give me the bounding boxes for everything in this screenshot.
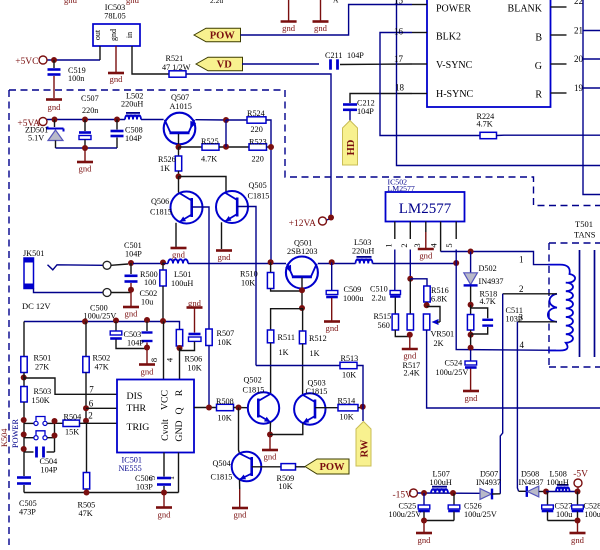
wire Q507 emitter right bbox=[195, 119, 226, 121]
svg-text:VCC: VCC bbox=[160, 390, 171, 410]
wire VD to C211 bbox=[242, 63, 319, 65]
resistor R502 bbox=[83, 322, 110, 373]
wire Q506 emitter bbox=[175, 223, 177, 247]
wire T501 pin2 drop bbox=[500, 294, 502, 494]
ground C509 bbox=[324, 322, 340, 334]
svg-text:gnd: gnd bbox=[314, 23, 328, 33]
svg-text:1K: 1K bbox=[279, 348, 289, 357]
pin 1 T501 label bbox=[519, 255, 524, 265]
wire Q505 base to R513 line bbox=[237, 207, 256, 366]
svg-text:R526: R526 bbox=[158, 155, 176, 164]
svg-text:R507: R507 bbox=[217, 329, 235, 338]
svg-text:R504: R504 bbox=[64, 413, 82, 422]
resistor R510 bbox=[240, 262, 274, 288]
resistor R505 bbox=[78, 423, 96, 518]
svg-text:gnd: gnd bbox=[571, 535, 585, 545]
capacitor C527 bbox=[542, 492, 573, 521]
svg-text:150K: 150K bbox=[32, 396, 50, 405]
svg-text:19: 19 bbox=[574, 83, 584, 93]
svg-text:20: 20 bbox=[574, 54, 584, 64]
wire R518 bottom bbox=[470, 330, 472, 335]
svg-text:27K: 27K bbox=[35, 363, 49, 372]
ground stem top2 bbox=[320, 0, 322, 21]
svg-text:T501: T501 bbox=[575, 219, 593, 229]
inductor L507 bbox=[430, 470, 452, 494]
svg-text:-5V: -5V bbox=[573, 470, 588, 480]
wire Q503 base to R514 bbox=[315, 407, 338, 409]
svg-text:1K: 1K bbox=[310, 349, 320, 358]
diode D502 IN4937 bbox=[464, 252, 504, 287]
svg-text:R515: R515 bbox=[374, 312, 392, 321]
wire pin4 to T501 pin1 bbox=[441, 252, 548, 265]
svg-text:Q507: Q507 bbox=[171, 93, 189, 102]
pin 2 T501 bbox=[503, 284, 557, 294]
node C508 junction bbox=[114, 117, 120, 123]
terminal +5VA bbox=[17, 118, 47, 130]
wire tie vertical bbox=[225, 120, 227, 147]
svg-text:220: 220 bbox=[251, 125, 263, 134]
pin 1 LM2577 bbox=[384, 222, 395, 248]
partial label top a bbox=[210, 0, 223, 5]
svg-text:POWER: POWER bbox=[11, 418, 20, 448]
svg-text:R503: R503 bbox=[34, 387, 52, 396]
inductor L508 bbox=[547, 470, 570, 492]
wire 78L05 in pin bbox=[132, 46, 169, 74]
wire 12V vertical bbox=[327, 218, 331, 220]
diode D507 IN4937 bbox=[476, 470, 501, 500]
wire R514 right bbox=[358, 407, 363, 409]
pin 15 stub bbox=[394, 0, 427, 6]
capacitor C504 bbox=[24, 447, 58, 475]
resistor R501 bbox=[21, 354, 51, 373]
svg-text:Q502: Q502 bbox=[244, 376, 262, 385]
wire R513 to RW bbox=[357, 366, 363, 422]
node pin2 feedback junction bbox=[407, 276, 413, 282]
potentiometer VR501 bbox=[423, 307, 454, 349]
wire -5V bottom link bbox=[548, 520, 578, 522]
svg-text:7: 7 bbox=[89, 385, 94, 395]
svg-text:DIS: DIS bbox=[127, 391, 143, 402]
node jack circle top bbox=[103, 261, 111, 269]
pin 16 stub bbox=[394, 27, 427, 37]
wire pin3 gnd bbox=[425, 232, 427, 248]
wire Q504 collector drop bbox=[239, 408, 240, 454]
resistor R521 bbox=[162, 54, 191, 77]
wire pin5 down bbox=[455, 250, 457, 264]
svg-text:104P: 104P bbox=[357, 107, 374, 116]
resistor R517 bbox=[407, 279, 413, 330]
wire C510 to R515 bbox=[394, 298, 396, 315]
svg-text:gnd: gnd bbox=[64, 0, 78, 5]
pin 3 T501 bbox=[517, 313, 556, 323]
transistor Q505 C1815 bbox=[216, 181, 269, 223]
svg-text:78L05: 78L05 bbox=[104, 12, 125, 21]
wire TRIG pin2 bbox=[86, 411, 117, 424]
svg-text:2: 2 bbox=[399, 243, 409, 247]
svg-text:gnd: gnd bbox=[110, 74, 124, 84]
svg-text:TRIG: TRIG bbox=[127, 422, 150, 433]
svg-text:4.7K: 4.7K bbox=[480, 297, 496, 306]
wire R508 to Q502 bbox=[234, 407, 248, 409]
wire R525 to R523 bbox=[219, 146, 249, 148]
pin 5 LM2577 bbox=[444, 222, 456, 248]
svg-text:gnd: gnd bbox=[234, 510, 248, 520]
svg-text:in: in bbox=[125, 32, 134, 38]
svg-text:100u: 100u bbox=[585, 510, 600, 519]
resistor R513 bbox=[340, 354, 358, 380]
transistor Q504 C1815 bbox=[211, 452, 262, 482]
resistor R512 bbox=[299, 308, 326, 358]
capacitor C508 bbox=[111, 120, 143, 149]
capacitor C503 bbox=[124, 322, 153, 348]
transistor Q502 C1815 bbox=[243, 376, 280, 424]
ground Q505 bbox=[216, 251, 232, 263]
svg-text:2.4K: 2.4K bbox=[404, 369, 420, 378]
node +12VA junction bbox=[328, 215, 334, 221]
svg-text:104P: 104P bbox=[41, 466, 58, 475]
wire switch right column bbox=[54, 423, 56, 452]
svg-text:IN4937: IN4937 bbox=[519, 478, 544, 487]
svg-text:2.2u: 2.2u bbox=[372, 294, 386, 303]
node base junction1 bbox=[299, 287, 305, 293]
svg-text:R514: R514 bbox=[338, 397, 356, 406]
wire -5V gnd stem bbox=[577, 521, 579, 533]
wire main 12V a bbox=[133, 263, 163, 265]
wire video vertical bbox=[397, 0, 600, 166]
svg-text:22: 22 bbox=[574, 0, 583, 6]
transistor Q501 2SB1203 bbox=[285, 239, 318, 289]
node R506 bottom bbox=[177, 345, 183, 351]
node C507 junction bbox=[82, 117, 88, 123]
resistor R503 bbox=[21, 378, 51, 406]
svg-text:10K: 10K bbox=[279, 482, 293, 491]
wire BLK2 down bbox=[380, 33, 480, 136]
svg-text:+5VC: +5VC bbox=[15, 57, 38, 67]
svg-text:R502: R502 bbox=[93, 354, 111, 363]
node gnd link bbox=[82, 145, 88, 151]
wire R513 line bbox=[256, 365, 340, 367]
node RW flag bbox=[356, 422, 371, 467]
svg-text:DC 12V: DC 12V bbox=[22, 301, 51, 311]
node R524 junction bbox=[223, 117, 229, 123]
wire R524 right down bbox=[266, 120, 271, 262]
ground C500 C503 bbox=[139, 365, 155, 377]
inductor L502 bbox=[121, 92, 143, 120]
node R502 rail junction bbox=[82, 319, 88, 325]
svg-text:8: 8 bbox=[149, 358, 159, 362]
svg-text:Q506: Q506 bbox=[151, 197, 169, 206]
node C504 left junction bbox=[21, 446, 27, 452]
svg-text:3: 3 bbox=[412, 243, 422, 247]
ground top mid1 bbox=[281, 22, 297, 34]
wire R502 bottom bbox=[85, 373, 87, 424]
wire pin8 drop bbox=[149, 322, 164, 380]
ground jack bbox=[123, 307, 139, 319]
pin 2 LM2577 bbox=[399, 222, 410, 248]
pin 19 stub bbox=[551, 83, 584, 93]
diode ZD501 zener bbox=[25, 120, 64, 149]
svg-text:R523: R523 bbox=[249, 138, 267, 147]
svg-text:5: 5 bbox=[444, 243, 454, 247]
wire C503 gnd stem bbox=[146, 343, 148, 364]
svg-text:100u/25V: 100u/25V bbox=[389, 510, 422, 519]
svg-text:gnd: gnd bbox=[125, 309, 139, 319]
node R510 junction bbox=[268, 259, 274, 265]
resistor R523 bbox=[249, 138, 267, 164]
svg-text:GND: GND bbox=[174, 420, 185, 441]
svg-text:C509: C509 bbox=[344, 285, 362, 294]
svg-text:R508: R508 bbox=[216, 397, 234, 406]
wire Q504 emitter bbox=[239, 480, 241, 489]
svg-text:R525: R525 bbox=[201, 137, 219, 146]
svg-text:gnd: gnd bbox=[79, 164, 93, 174]
svg-text:18: 18 bbox=[395, 83, 405, 93]
node VR501 top bbox=[424, 302, 430, 308]
node RW junction bbox=[360, 404, 366, 410]
wire jack sleeve bbox=[34, 289, 104, 293]
node switch right2 bbox=[52, 433, 58, 439]
wire 78L05 out pin bbox=[99, 46, 101, 60]
label R517 bbox=[403, 361, 421, 378]
svg-text:100uH: 100uH bbox=[171, 279, 193, 288]
svg-text:gnd: gnd bbox=[326, 323, 340, 333]
wire Q504 base to R509 bbox=[252, 466, 281, 468]
svg-text:560: 560 bbox=[378, 321, 390, 330]
wire T501 pin3 drop bbox=[517, 322, 518, 492]
svg-text:gnd: gnd bbox=[109, 29, 118, 41]
wire R507 to Q output bbox=[208, 346, 210, 408]
wire main 12V b bbox=[163, 263, 168, 265]
svg-text:100u: 100u bbox=[556, 510, 572, 519]
ground partial top2 bbox=[126, 0, 140, 5]
terminal -5V bbox=[573, 470, 588, 488]
wire branch G bbox=[583, 58, 600, 60]
node base junction2 bbox=[299, 305, 305, 311]
capacitor C510 bbox=[370, 285, 401, 303]
wire right bus bbox=[583, 0, 600, 195]
svg-text:LM2577: LM2577 bbox=[388, 184, 415, 193]
wire R515 bottom bbox=[395, 330, 409, 337]
wire base bus bbox=[179, 177, 227, 193]
svg-text:6: 6 bbox=[89, 399, 94, 409]
svg-text:3: 3 bbox=[519, 313, 524, 323]
svg-text:15: 15 bbox=[394, 0, 404, 6]
wire Q504 gnd stem bbox=[239, 489, 241, 507]
op-amp U_IC302 video IC box bbox=[427, 0, 551, 107]
wire branch R bbox=[583, 87, 600, 89]
op-amp U_IC502 LM2577 box bbox=[386, 178, 465, 222]
wire Q501 base stem bbox=[301, 278, 303, 309]
svg-text:103P: 103P bbox=[136, 483, 153, 492]
wire jack tip contact bbox=[48, 265, 104, 270]
svg-text:100u/25V: 100u/25V bbox=[436, 368, 469, 377]
capacitor C500 bbox=[84, 304, 148, 349]
node Q507 base junction bbox=[176, 144, 182, 150]
svg-text:C1815: C1815 bbox=[150, 208, 172, 217]
svg-text:47K: 47K bbox=[95, 363, 109, 372]
wire THR pin6 bbox=[86, 399, 117, 409]
wire bottom rail bbox=[24, 492, 179, 494]
resistor R515 bbox=[374, 312, 399, 330]
transistor Q503 C1815 bbox=[294, 379, 327, 425]
ground top mid2 bbox=[313, 22, 329, 34]
ground Q504 bbox=[232, 508, 248, 520]
wire Q507 base bbox=[178, 134, 180, 147]
svg-text:R: R bbox=[535, 90, 542, 101]
transformer core lines bbox=[580, 250, 595, 357]
connector JK501 jack bbox=[22, 249, 51, 311]
wire R526 bottom bbox=[178, 171, 180, 177]
ground C524 bbox=[463, 391, 479, 403]
node R517 bottom bbox=[407, 332, 413, 338]
capacitor C511 bbox=[471, 306, 523, 334]
node gnd -15V bbox=[421, 518, 427, 524]
pin 5 NE555 bbox=[147, 453, 164, 481]
capacitor C528 bbox=[572, 492, 600, 521]
node pin8 rail junction bbox=[160, 318, 166, 324]
svg-text:POW: POW bbox=[210, 31, 236, 42]
svg-text:VR501: VR501 bbox=[431, 330, 455, 339]
svg-text:IN4937: IN4937 bbox=[476, 478, 501, 487]
resistor R516 bbox=[424, 286, 449, 304]
svg-text:220uH: 220uH bbox=[121, 100, 143, 109]
svg-text:R512: R512 bbox=[309, 334, 327, 343]
svg-text:1000u: 1000u bbox=[343, 294, 363, 303]
node R518 bottom bbox=[468, 332, 474, 338]
node HD flag bbox=[343, 121, 358, 166]
svg-text:TANS: TANS bbox=[574, 230, 596, 240]
svg-text:104P: 104P bbox=[347, 51, 364, 60]
node C500 rail junction bbox=[113, 318, 119, 324]
svg-text:2: 2 bbox=[88, 411, 93, 421]
svg-text:G: G bbox=[535, 61, 542, 72]
wire C509 gnd stem bbox=[331, 298, 333, 321]
svg-text:gnd: gnd bbox=[126, 0, 140, 5]
svg-text:R513: R513 bbox=[341, 354, 359, 363]
wire R523 right bbox=[267, 146, 272, 148]
svg-text:16: 16 bbox=[394, 27, 404, 37]
svg-text:C1815: C1815 bbox=[306, 387, 328, 396]
terminal +5VC bbox=[15, 56, 47, 67]
node C509 junction bbox=[329, 259, 335, 265]
node pin4wire junction bbox=[468, 345, 474, 351]
ground -5V bbox=[570, 533, 586, 545]
wire left vertical bbox=[23, 322, 25, 357]
resistor R507 bbox=[206, 329, 234, 347]
resistor R525 bbox=[201, 137, 219, 164]
resistor R514 bbox=[338, 397, 359, 422]
svg-text:IN4937: IN4937 bbox=[479, 277, 504, 286]
inductor L501 bbox=[168, 259, 193, 288]
node C525 junction bbox=[421, 490, 427, 496]
svg-text:L501: L501 bbox=[174, 270, 191, 279]
svg-text:POWER: POWER bbox=[436, 4, 471, 15]
svg-text:gnd: gnd bbox=[172, 250, 186, 260]
svg-text:K504: K504 bbox=[0, 428, 9, 447]
wire 78L05 gnd pin bbox=[115, 46, 117, 72]
svg-text:4: 4 bbox=[520, 340, 525, 350]
ground LM2577 bbox=[418, 249, 434, 261]
node emitter gnd junction bbox=[267, 432, 273, 438]
node Q504 collector junction bbox=[236, 405, 242, 411]
capacitor C509 bbox=[326, 262, 363, 303]
wire R517 gnd stem bbox=[409, 335, 411, 348]
svg-text:4.7K: 4.7K bbox=[201, 155, 217, 164]
svg-text:A: A bbox=[333, 0, 339, 5]
node VD flag bbox=[196, 57, 243, 71]
wire HSYNC pin18 bbox=[350, 94, 412, 104]
label C502 bbox=[140, 289, 158, 307]
switch K504 pole1 bbox=[21, 417, 55, 426]
ground NE555 bbox=[156, 508, 172, 520]
svg-text:POW: POW bbox=[319, 462, 345, 473]
wire -5V rail bbox=[546, 491, 578, 493]
svg-text:220n: 220n bbox=[82, 106, 98, 115]
svg-text:Cvolt: Cvolt bbox=[160, 419, 171, 441]
svg-text:THR: THR bbox=[127, 403, 147, 414]
svg-text:21: 21 bbox=[574, 26, 583, 36]
wire pin2 down bbox=[409, 250, 411, 279]
capacitor C501 bbox=[124, 241, 142, 282]
pin 4 T501 label bbox=[520, 340, 525, 350]
svg-text:B: B bbox=[535, 33, 542, 44]
node pin5 junction bbox=[453, 260, 459, 266]
wire C525 bottom bbox=[424, 512, 454, 521]
node mid junction bbox=[223, 144, 229, 150]
node gnd rail junction bbox=[161, 490, 167, 496]
svg-text:R: R bbox=[174, 389, 185, 396]
svg-text:RW: RW bbox=[359, 439, 370, 457]
wire DIS pin7 bbox=[24, 378, 117, 395]
svg-text:R506: R506 bbox=[185, 355, 203, 364]
svg-text:V-SYNC: V-SYNC bbox=[436, 60, 473, 71]
node R505 bottom bbox=[84, 490, 90, 496]
node D508 junction bbox=[543, 489, 549, 495]
node C501 bottom junction bbox=[128, 287, 134, 293]
wire C501 to gnd bbox=[130, 283, 132, 306]
wire L502 to Q507 bbox=[141, 119, 164, 121]
ground IC503 bbox=[108, 73, 124, 84]
wire R516 bottom bbox=[426, 302, 428, 305]
node R523 junction bbox=[268, 144, 274, 150]
wire sleeve junction bbox=[111, 292, 131, 294]
wire Q502 gnd stem bbox=[269, 435, 271, 450]
node base bus junction bbox=[176, 174, 182, 180]
wire branch B bbox=[583, 30, 600, 32]
svg-text:100: 100 bbox=[144, 278, 156, 287]
svg-text:104P: 104P bbox=[127, 339, 144, 348]
resistor R506 bbox=[176, 330, 202, 373]
ground stem top1 bbox=[288, 0, 290, 21]
svg-text:C1815: C1815 bbox=[248, 192, 270, 201]
wire pin5 to T501 pin4 bbox=[456, 263, 556, 350]
svg-text:104P: 104P bbox=[125, 250, 142, 259]
svg-text:15K: 15K bbox=[65, 428, 79, 437]
wire R503 bottom bbox=[23, 402, 25, 452]
svg-text:10K: 10K bbox=[241, 279, 255, 288]
capacitor C211 bbox=[325, 51, 364, 70]
capacitor C212 bbox=[343, 99, 375, 117]
wire C506 bottom bbox=[163, 486, 165, 493]
wire VCC rail bbox=[24, 322, 180, 330]
svg-text:100u/25V: 100u/25V bbox=[464, 510, 497, 519]
pin 20 stub bbox=[551, 54, 584, 64]
svg-text:17: 17 bbox=[394, 54, 404, 64]
svg-text:R501: R501 bbox=[34, 354, 52, 363]
svg-text:100u/25V: 100u/25V bbox=[84, 312, 117, 321]
pin 1 NE555 bbox=[166, 453, 179, 493]
svg-text:Q: Q bbox=[174, 407, 185, 414]
